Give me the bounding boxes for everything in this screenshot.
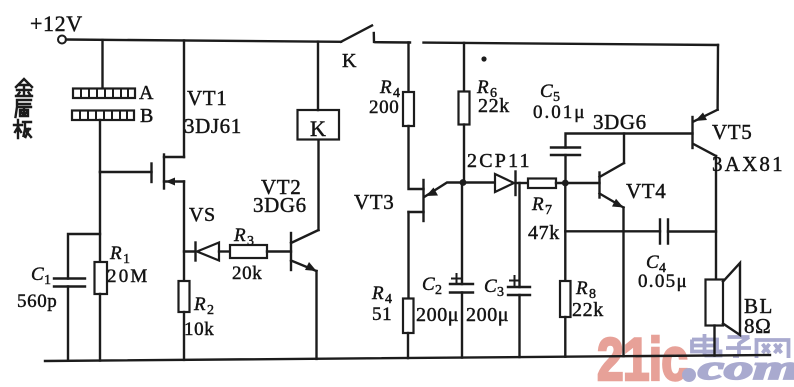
svg-text:C: C	[422, 274, 435, 295]
label 22k (R8)	[572, 299, 604, 321]
wire C1 bottom to ground rail	[67, 287, 69, 361]
wire VT1 drain to top rail	[183, 41, 185, 158]
svg-text:3DJ61: 3DJ61	[184, 114, 242, 138]
transistor VT3 symbol	[409, 180, 464, 221]
resistor R4 (200) body	[403, 92, 414, 126]
svg-text:51: 51	[372, 304, 392, 325]
wire VT3 collector down through R4(51)	[407, 212, 409, 299]
svg-text:1: 1	[44, 273, 52, 288]
resistor R4 (51) body	[403, 299, 414, 334]
svg-text:VT4: VT4	[626, 179, 666, 203]
svg-text:K: K	[342, 50, 357, 72]
label 8 ohm	[744, 314, 771, 338]
wire R2 bottom to ground rail	[183, 312, 185, 360]
resistor R8 body	[560, 281, 571, 317]
wire C2 top from junction node	[461, 183, 463, 285]
wire R8 bottom to ground rail	[564, 317, 566, 357]
svg-text:A: A	[139, 82, 154, 104]
svg-text:K: K	[310, 116, 327, 141]
svg-text:22k: 22k	[572, 299, 604, 321]
label plate A	[139, 82, 154, 104]
wire VT5 collector down to speaker	[715, 156, 717, 280]
label R4 (200)	[379, 77, 401, 101]
label VT1	[187, 86, 227, 110]
wire R4 top feed	[407, 42, 409, 92]
label 47k	[528, 222, 560, 244]
stray mark dot	[481, 56, 486, 61]
svg-text:R: R	[379, 77, 392, 98]
wire C2 bottom to ground rail	[461, 293, 463, 358]
label K (relay)	[310, 116, 327, 141]
label 金 (metal)	[16, 79, 32, 96]
watermark 子	[726, 337, 751, 356]
label R8	[575, 278, 597, 302]
capacitor C3 (electrolytic)	[508, 276, 530, 295]
svg-text:200μ: 200μ	[416, 304, 459, 326]
label plate B	[140, 105, 154, 127]
capacitor C1	[54, 279, 85, 287]
label R7	[531, 194, 553, 218]
label R3	[233, 225, 255, 249]
label C1	[31, 264, 52, 288]
wire C3 bottom to ground rail	[518, 295, 520, 357]
label 51	[372, 304, 392, 325]
wire sensor plate feed from +12V rail	[101, 40, 103, 89]
svg-text:0.05μ: 0.05μ	[638, 271, 688, 292]
label 20M	[107, 266, 150, 287]
wire C4 left branch	[565, 230, 660, 232]
svg-text:3DG6: 3DG6	[253, 193, 307, 217]
watermark 网	[757, 340, 789, 358]
wire R7 to VT4 base	[556, 182, 600, 184]
wire R1 bottom to ground rail	[99, 294, 101, 361]
svg-text:B: B	[140, 105, 154, 127]
label VT3	[354, 190, 394, 214]
resistor R7 body	[528, 179, 556, 189]
label 200u (C2)	[416, 304, 459, 326]
svg-text:20k: 20k	[232, 263, 262, 284]
svg-text:8Ω: 8Ω	[744, 314, 771, 338]
label 3DG6 (VT4)	[593, 110, 647, 134]
svg-text:C: C	[484, 276, 497, 297]
svg-text:3: 3	[497, 285, 505, 300]
label 3DG6 (VT2)	[253, 193, 307, 217]
svg-text:C: C	[540, 81, 553, 102]
wire gate node down to R1 top	[99, 172, 101, 262]
node VT3 emitter junction	[460, 179, 467, 186]
wire C5 top to VT5 base line	[566, 134, 693, 148]
svg-text:VT5: VT5	[712, 120, 752, 144]
label 属 (belong)	[16, 100, 32, 117]
relay coil K box	[298, 110, 340, 140]
wire VT1 source down to VS node	[184, 182, 195, 252]
diode 2CP11	[495, 172, 528, 196]
label R1	[109, 243, 131, 267]
svg-text:7: 7	[545, 203, 553, 218]
svg-text:R: R	[575, 278, 588, 299]
label 20k	[232, 263, 262, 284]
node R7/C5/VT4 base junction	[562, 180, 569, 187]
label C2	[422, 274, 443, 298]
wire junction down to R8 and C4 tap	[564, 183, 566, 281]
resistor R3 body	[230, 245, 267, 258]
label R4 (51)	[371, 283, 393, 307]
svg-text:R: R	[371, 283, 384, 304]
svg-text:22k: 22k	[478, 95, 510, 117]
svg-text:R: R	[233, 225, 246, 246]
diode VS	[196, 243, 231, 261]
speaker BL	[706, 263, 741, 335]
wire R4(51) bottom to ground rail	[407, 333, 409, 358]
wire VT5 emitter to top rail corner	[716, 45, 719, 110]
watermark .com	[682, 349, 794, 387]
transistor VT5 (3AX81) symbol	[693, 110, 718, 156]
switch K (normally-open contact)	[341, 26, 374, 42]
label BL	[744, 294, 774, 318]
metal plate B (hatched sensor plate)	[72, 111, 134, 121]
label C4	[646, 252, 667, 276]
label +12V	[30, 11, 83, 36]
label C5	[540, 81, 561, 105]
svg-text:R: R	[531, 194, 544, 215]
wire C4 right to VT5 collector line	[668, 230, 716, 232]
wire R4 bottom to VT3 base	[409, 126, 424, 189]
wire bottom ground rail	[45, 355, 770, 361]
label VT5	[712, 120, 752, 144]
transistor VT2 (3DG6) symbol	[291, 230, 319, 271]
capacitor C5	[551, 148, 580, 156]
label 560p	[17, 291, 57, 312]
wire C3 top tap	[518, 183, 520, 287]
svg-text:1: 1	[123, 252, 131, 267]
wire R6 top feed	[463, 43, 465, 92]
label VT2	[261, 175, 301, 199]
svg-text:560p: 560p	[17, 291, 57, 312]
resistor R1 body	[95, 262, 108, 294]
transistor VT4 (3DG6) symbol	[600, 163, 625, 208]
wire speaker bottom to ground rail	[713, 326, 715, 356]
label VT4	[626, 179, 666, 203]
label R2	[193, 294, 215, 318]
wire VT2 emitter to ground rail	[315, 271, 317, 359]
wire C1 branch tap	[68, 234, 100, 279]
wire plate B down to gate node	[99, 120, 101, 172]
wire R3 to VT2 base	[267, 250, 291, 252]
wire relay coil to top rail	[317, 42, 319, 110]
svg-text:47k: 47k	[528, 222, 560, 244]
resistor R6 body	[459, 92, 470, 125]
wire VT4 collector up to VT5 base line	[623, 134, 625, 164]
capacitor C4	[660, 220, 668, 244]
label 22k (R6)	[478, 95, 510, 117]
wire top supply rail left segment	[66, 40, 341, 42]
wire node to diode 2CP11	[463, 181, 495, 183]
label 10k	[184, 319, 214, 340]
svg-text:10k: 10k	[184, 319, 214, 340]
label C3	[484, 276, 505, 300]
svg-text:20M: 20M	[107, 266, 150, 287]
svg-text:3DG6: 3DG6	[593, 110, 647, 134]
svg-text:VS: VS	[189, 204, 216, 226]
FET VT1 (3DJ61) symbol	[152, 155, 185, 189]
capacitor C2 (electrolytic)	[450, 274, 473, 293]
wire VT2 collector to relay coil	[317, 140, 319, 231]
svg-text:0.01μ: 0.01μ	[533, 102, 586, 123]
svg-text:VT1: VT1	[187, 86, 227, 110]
svg-text:C: C	[31, 264, 44, 285]
svg-text:R: R	[109, 243, 122, 264]
svg-text:VT3: VT3	[354, 190, 394, 214]
watermark 21ic	[597, 326, 687, 387]
svg-text:3: 3	[247, 234, 255, 249]
label 0.05u	[638, 271, 688, 292]
resistor R2 body	[179, 281, 190, 312]
wire C5 bottom to junction	[564, 155, 566, 183]
wire top supply rail right segment	[376, 42, 719, 45]
watermark 电	[692, 334, 721, 356]
label VS	[189, 204, 216, 226]
label 200u (C3)	[466, 304, 509, 326]
label 2CP11	[467, 150, 532, 172]
wire VS node down through R2	[183, 252, 185, 282]
svg-text:200μ: 200μ	[466, 304, 509, 326]
metal plate A (hatched sensor plate)	[73, 89, 135, 99]
wire R6 bottom to node	[463, 125, 465, 183]
label K (switch)	[342, 50, 357, 72]
svg-text:2: 2	[435, 283, 443, 298]
label R6	[476, 77, 498, 101]
label 0.01u	[533, 102, 586, 123]
svg-text:+12V: +12V	[30, 11, 83, 36]
svg-text:21ic: 21ic	[597, 326, 687, 382]
+12V supply terminal	[58, 36, 66, 44]
svg-text:2CP11: 2CP11	[467, 150, 532, 172]
svg-text:3AX81: 3AX81	[712, 152, 785, 176]
svg-text:C: C	[646, 252, 659, 273]
svg-text:2: 2	[207, 303, 215, 318]
wire VT4 emitter down to ground rail	[622, 208, 624, 357]
label 板 (plate)	[14, 120, 31, 138]
label 3DJ61	[184, 114, 242, 138]
wire VT1 gate lead	[100, 171, 152, 173]
label 200	[369, 97, 399, 118]
label 3AX81	[712, 152, 785, 176]
svg-text:200: 200	[369, 97, 399, 118]
svg-text:R: R	[193, 294, 206, 315]
